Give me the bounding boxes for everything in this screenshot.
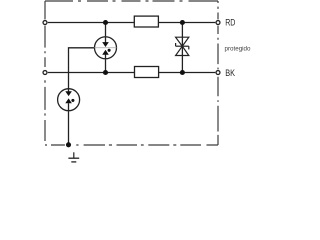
svg-text:RD: RD [225, 18, 235, 28]
svg-text:protegido: protegido [225, 46, 252, 53]
svg-text:BK: BK [225, 68, 235, 78]
